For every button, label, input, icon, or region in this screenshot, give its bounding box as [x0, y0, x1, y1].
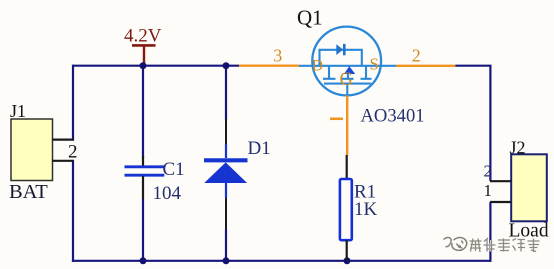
diode D1: [204, 66, 248, 260]
svg-text:4.2V: 4.2V: [124, 26, 162, 47]
wire orange Q1 gate down: [346, 96, 348, 156]
junction dot top D1: [223, 62, 230, 69]
svg-text:D: D: [312, 57, 323, 74]
svg-text:1: 1: [484, 181, 493, 200]
svg-text:G: G: [340, 70, 353, 90]
wire left vertical from top net to J1 pin1: [72, 65, 74, 141]
svg-text:104: 104: [153, 183, 182, 204]
power port 4.2V: [124, 26, 162, 66]
svg-text:2: 2: [484, 162, 493, 181]
svg-text:C1: C1: [163, 159, 185, 180]
svg-text:2: 2: [412, 46, 421, 66]
wire bottom horizontal net: [72, 260, 491, 262]
svg-text:1K: 1K: [354, 199, 378, 220]
junction dot top C1: [140, 62, 147, 69]
svg-text:BAT: BAT: [9, 181, 48, 203]
connector J2: [490, 154, 547, 262]
wire left vertical from J1 pin2 to bottom net: [72, 161, 74, 262]
watermark text: [470, 238, 540, 252]
wire top horizontal net: [73, 65, 239, 67]
connector J1: [11, 119, 74, 181]
svg-text:2: 2: [68, 142, 78, 163]
watermark icon: [444, 237, 467, 250]
transistor Q1 AO3401: [299, 27, 396, 96]
junction dot bottom C1: [140, 257, 147, 264]
wire orange to Q1 drain: [239, 64, 299, 66]
orange dash left of AO3401: [330, 118, 343, 121]
junction dot bottom D1: [223, 257, 230, 264]
svg-text:J1: J1: [10, 101, 26, 121]
resistor R1: [340, 179, 352, 261]
svg-text:S: S: [370, 55, 379, 74]
svg-text:D1: D1: [248, 138, 271, 159]
svg-text:J2: J2: [510, 138, 526, 158]
wire navy from orange to J2 corner: [455, 66, 490, 181]
svg-text:3: 3: [273, 46, 282, 66]
pin wire black gate to R1: [346, 155, 348, 180]
svg-text:Q1: Q1: [297, 6, 323, 30]
wire orange from Q1 source: [396, 65, 455, 67]
watermark text halo: [470, 238, 540, 252]
capacitor C1: [125, 66, 165, 260]
junction dot bottom R1: [344, 257, 351, 264]
svg-text:AO3401: AO3401: [361, 106, 425, 127]
